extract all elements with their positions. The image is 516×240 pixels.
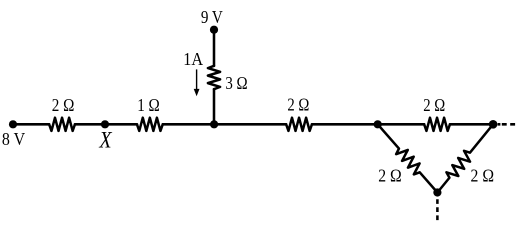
wire: R4 to triangle left vertex bbox=[312, 123, 378, 126]
node: triangle bottom vertex dot bbox=[433, 188, 441, 196]
node: 9 V terminal dot bbox=[210, 26, 218, 34]
wire: dashed continuation downward bbox=[436, 199, 439, 220]
svg-text:2 Ω: 2 Ω bbox=[423, 95, 445, 115]
resistor R5, 2 Ω (triangle top) bbox=[424, 118, 450, 131]
node: 8 V terminal dot bbox=[9, 120, 17, 128]
wire: R1 to node X and on to R2 bbox=[75, 123, 137, 126]
wire: 9V terminal down to R3 bbox=[213, 30, 216, 66]
svg-text:1 Ω: 1 Ω bbox=[137, 95, 160, 115]
current arrow 1A (down) bbox=[196, 69, 198, 90]
node: triangle right vertex dot bbox=[489, 120, 498, 129]
wire: 8V terminal to R1 bbox=[13, 123, 49, 126]
svg-text:2 Ω: 2 Ω bbox=[52, 95, 75, 115]
resistor R6, 2 Ω (left diagonal) bbox=[378, 124, 438, 192]
wire: R5 to triangle right vertex bbox=[450, 123, 493, 126]
svg-text:2 Ω: 2 Ω bbox=[287, 94, 309, 114]
node: triangle left vertex dot bbox=[374, 120, 382, 128]
resistor R4, 2 Ω bbox=[286, 118, 312, 131]
wire: left vertex to R5 bbox=[378, 123, 424, 126]
svg-text:9 V: 9 V bbox=[201, 7, 223, 27]
svg-text:3 Ω: 3 Ω bbox=[225, 73, 247, 93]
svg-text:1A: 1A bbox=[183, 49, 203, 69]
node X dot bbox=[101, 120, 109, 128]
svg-text:8 V: 8 V bbox=[2, 129, 25, 149]
svg-text:X: X bbox=[99, 127, 113, 153]
resistor R1, 2 Ω bbox=[49, 118, 75, 131]
wire: dashed continuation to the right bbox=[498, 123, 515, 126]
wire: R3 down to center junction bbox=[213, 89, 216, 124]
node: center junction dot bbox=[210, 120, 218, 128]
svg-text:2 Ω: 2 Ω bbox=[378, 165, 402, 185]
resistor R3, 3 Ω (vertical) bbox=[208, 66, 220, 89]
wire: R2 to center junction to R4 bbox=[163, 123, 286, 126]
resistor R7, 2 Ω (right diagonal) bbox=[437, 124, 493, 192]
svg-text:2 Ω: 2 Ω bbox=[471, 165, 495, 185]
resistor R2, 1 Ω bbox=[137, 118, 163, 131]
